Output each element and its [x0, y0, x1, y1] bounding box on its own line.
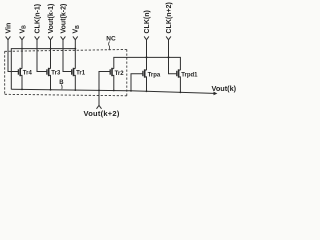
wire CLK(n) down to Trpa drain	[146, 40, 148, 70]
svg-text:Vout(k): Vout(k)	[212, 84, 237, 93]
svg-text:Trpd1: Trpd1	[181, 72, 198, 78]
transistor Tr1	[72, 68, 76, 90]
input CLK(n+2) arrow	[166, 36, 171, 39]
wire Vout(k-2) to Tr1 gate	[63, 40, 72, 72]
svg-text:Vin: Vin	[5, 23, 12, 34]
input CLK(n) arrow	[144, 36, 149, 39]
input Vout(k-2) arrow	[61, 36, 66, 39]
svg-text:Tr3: Tr3	[51, 70, 61, 76]
svg-text:CLK(n): CLK(n)	[144, 10, 151, 33]
transistor Trpa	[143, 69, 147, 91]
wire top rail to node B	[11, 49, 75, 90]
output arrowhead Vout(k)	[214, 92, 218, 96]
wire Vout(k+2) input	[98, 90, 100, 105]
svg-text:Tr2: Tr2	[115, 71, 125, 77]
wire CLK(n-1) to Tr3 gate	[37, 40, 47, 72]
svg-text:B: B	[59, 80, 64, 86]
wire CLK(n+2) to Trpd1 gate	[169, 40, 177, 74]
NC dashed box	[5, 50, 127, 96]
wire VB down to Tr4 drain	[21, 40, 23, 69]
wire Tr2 drain to Trpd1 drain	[114, 57, 181, 70]
wire Vout(k-1) down to Tr3 drain	[50, 40, 52, 69]
transistor Tr2	[110, 68, 114, 91]
transistor Tr3	[47, 68, 51, 90]
svg-text:NC: NC	[106, 35, 116, 42]
wire Trpa gate to output line	[131, 74, 143, 91]
input VB arrow	[20, 36, 25, 39]
wire Tr2 gate to node B rail	[99, 72, 110, 91]
wire Vin to Tr4 gate	[8, 40, 18, 72]
svg-text:CLK(n+2): CLK(n+2)	[166, 2, 173, 33]
input CLK(n-1) arrow	[35, 36, 40, 39]
input VB2 arrow	[73, 36, 78, 39]
svg-text:Tr4: Tr4	[23, 70, 33, 76]
wire bottom rail node B and output line	[11, 89, 214, 93]
junction dots	[21, 48, 181, 94]
svg-text:VB: VB	[19, 25, 27, 34]
transistor Trpd1	[177, 69, 181, 92]
svg-text:VB: VB	[73, 25, 81, 34]
svg-text:Vout(k-1): Vout(k-1)	[48, 4, 55, 34]
arrow Vout(k+2) up chevron	[97, 105, 102, 109]
wire VB2 down to Tr1 drain	[74, 40, 76, 69]
svg-text:CLK(n-1): CLK(n-1)	[34, 4, 41, 34]
svg-text:Trpa: Trpa	[148, 72, 161, 78]
svg-text:Vout(k+2): Vout(k+2)	[84, 109, 120, 118]
node B leader	[60, 85, 63, 90]
node NC label leader	[109, 42, 110, 50]
svg-text:Vout(k-2): Vout(k-2)	[60, 4, 67, 34]
svg-text:Tr1: Tr1	[76, 70, 86, 76]
input Vout(k-1) arrow	[48, 36, 53, 39]
transistor Tr4	[18, 68, 22, 90]
input Vin arrow	[6, 36, 11, 39]
